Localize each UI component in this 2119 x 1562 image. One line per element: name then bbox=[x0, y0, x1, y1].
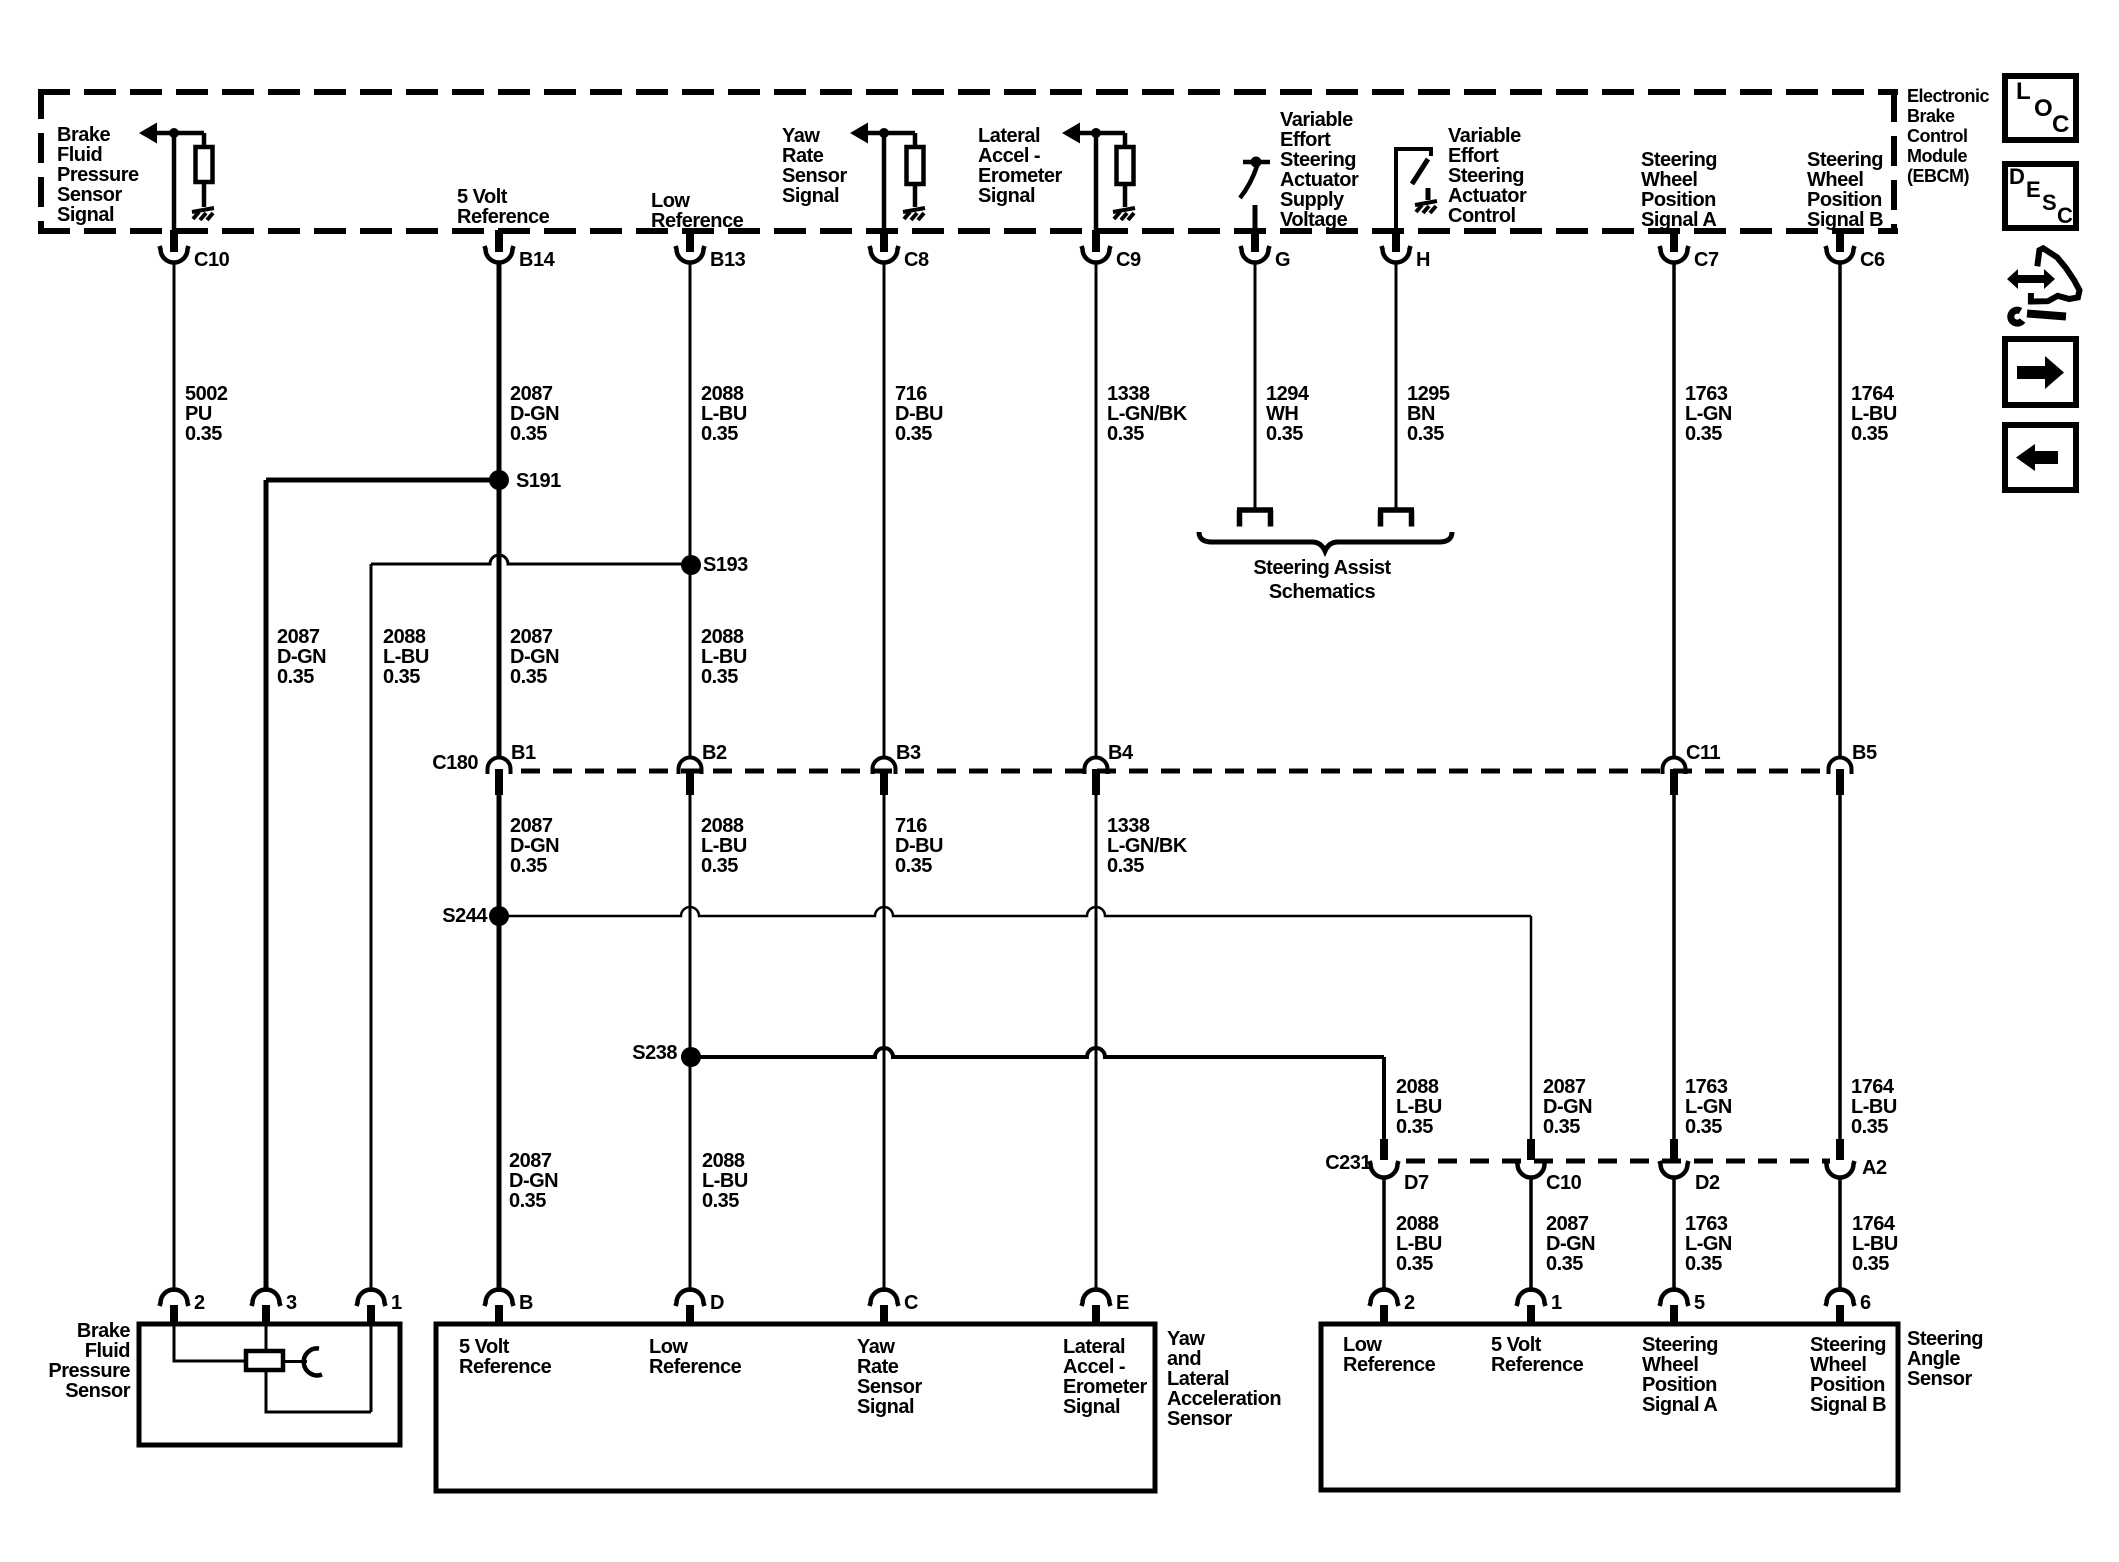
svg-text:1: 1 bbox=[1551, 1292, 1562, 1314]
wire resistor to ground (C10) bbox=[202, 182, 207, 207]
svg-text:B13: B13 bbox=[710, 249, 746, 271]
icon box DESC bbox=[2005, 164, 2076, 228]
wire resistor to ground (C8) bbox=[913, 184, 918, 207]
connector pin 2 (pressure sensor) bbox=[160, 1290, 206, 1325]
connector pin C (yaw sensor) bbox=[870, 1290, 919, 1325]
junction node (C10 circuit) bbox=[169, 128, 179, 138]
wire 1295 BN (H) bbox=[1395, 263, 1398, 508]
wire 1763 L-GN (C11 to C231 D2) bbox=[1672, 790, 1676, 1140]
wire node down to C10 pin bbox=[172, 133, 177, 231]
connector C180 dashed line bbox=[521, 769, 1830, 774]
wire bar at G node bbox=[1243, 160, 1270, 165]
svg-text:L: L bbox=[2016, 78, 2030, 105]
svg-text:VariableEffortSteeringActuator: VariableEffortSteeringActuatorSupplyVolt… bbox=[1280, 109, 1359, 231]
svg-text:C7: C7 bbox=[1694, 249, 1719, 271]
svg-text:B5: B5 bbox=[1852, 742, 1877, 764]
svg-text:2: 2 bbox=[1404, 1292, 1415, 1314]
svg-text:C6: C6 bbox=[1860, 249, 1885, 271]
wire 2087 branch down (to pin 3) bbox=[264, 480, 269, 1292]
signal arrow (Brake Fluid Pressure Sensor Signal) bbox=[139, 123, 157, 144]
connector pin 1 (steering angle sensor) bbox=[1517, 1290, 1563, 1325]
ground (C8 circuit) bbox=[903, 208, 925, 220]
wire node to resistor R(C10) bbox=[202, 133, 207, 147]
curly brace (Steering Assist) bbox=[1199, 532, 1452, 551]
svg-text:S244: S244 bbox=[442, 905, 488, 927]
connector pin B14 (EBCM) bbox=[485, 230, 556, 271]
icon wrench/double-arrow (diagnostic aids) bbox=[2007, 248, 2080, 323]
svg-text:B4: B4 bbox=[1108, 742, 1134, 764]
connector pin G (EBCM) bbox=[1241, 230, 1291, 271]
connector C231 pin D7 bbox=[1370, 1139, 1429, 1194]
wire node down to C8 pin bbox=[882, 133, 887, 231]
wire 2087 D-GN (S191 to C180 B1) bbox=[497, 480, 502, 759]
svg-text:E: E bbox=[1116, 1292, 1129, 1314]
svg-text:S191: S191 bbox=[516, 470, 561, 492]
connector pin C10 (EBCM) bbox=[160, 230, 230, 271]
wire 2088 (C231 D7 to sensor pin 2) bbox=[1382, 1176, 1386, 1292]
svg-text:S238: S238 bbox=[632, 1042, 677, 1064]
connector pin D (yaw sensor) bbox=[676, 1290, 725, 1325]
EBCM module dashed border right bbox=[1891, 92, 1897, 231]
wire 1338 L-GN/BK (B4 to sensor pin E) bbox=[1095, 790, 1098, 1292]
connector C180 pin B2 bbox=[679, 742, 727, 795]
wire node to resistor (C8) bbox=[913, 133, 918, 147]
component box: Yaw and Lateral Acceleration Sensor bbox=[436, 1324, 1155, 1491]
wire arrow to node bbox=[155, 131, 204, 136]
svg-text:D7: D7 bbox=[1404, 1172, 1429, 1194]
svg-text:D2: D2 bbox=[1695, 1172, 1720, 1194]
EBCM module dashed border left bbox=[38, 89, 44, 231]
wire 2088 (S238 to C231 D7) bbox=[691, 1048, 1384, 1057]
svg-text:C9: C9 bbox=[1116, 249, 1141, 271]
ground (C9 circuit) bbox=[1113, 208, 1135, 220]
junction node (C8 circuit) bbox=[879, 128, 889, 138]
svg-text:D: D bbox=[710, 1292, 724, 1314]
wire 716 D-BU (C8 to C180 B3) bbox=[883, 263, 886, 758]
wire H pin up and over bbox=[1396, 149, 1431, 231]
connector C231 pin C10 bbox=[1517, 1139, 1582, 1194]
svg-text:A2: A2 bbox=[1862, 1157, 1887, 1179]
signal arrow (Lateral Accelerometer Signal) bbox=[1062, 123, 1080, 144]
junction node (C9 circuit) bbox=[1091, 128, 1101, 138]
wire 2088 L-BU (B13 to C180 B2) bbox=[689, 263, 692, 758]
connector pin 1 (pressure sensor) bbox=[357, 1290, 403, 1325]
wire element to wiper symbol bbox=[284, 1360, 307, 1363]
wire 2088 branch down (to pin 1) bbox=[370, 564, 373, 1292]
svg-text:3: 3 bbox=[286, 1292, 297, 1314]
svg-text:SteeringWheelPositionSignal B: SteeringWheelPositionSignal B bbox=[1810, 1334, 1886, 1416]
svg-text:C: C bbox=[904, 1292, 918, 1314]
connector pin C6 (EBCM) bbox=[1826, 230, 1885, 271]
wire 1763 L-GN (C7 to C180 C11) bbox=[1672, 263, 1676, 758]
connector pin 6 (steering angle sensor) bbox=[1826, 1290, 1872, 1325]
icon box LOC bbox=[2005, 76, 2076, 140]
EBCM module dashed border top bbox=[38, 89, 1898, 95]
wiper crescent symbol bbox=[304, 1348, 322, 1375]
svg-text:O: O bbox=[2034, 95, 2052, 122]
svg-text:G: G bbox=[1275, 249, 1290, 271]
svg-text:VariableEffortSteeringActuator: VariableEffortSteeringActuatorControl bbox=[1448, 125, 1527, 227]
svg-text:5: 5 bbox=[1694, 1292, 1705, 1314]
connector pin B (yaw sensor) bbox=[485, 1290, 534, 1325]
connector pin B13 (EBCM) bbox=[676, 230, 746, 271]
terminator bracket (G wire) bbox=[1237, 510, 1273, 527]
svg-text:B2: B2 bbox=[702, 742, 727, 764]
ground (C10 circuit) bbox=[192, 208, 214, 220]
connector C231 dashed line bbox=[1406, 1159, 1830, 1164]
wire 1764 L-BU (A2 to sensor pin 6) bbox=[1838, 1176, 1842, 1292]
wire resistor to ground (C9) bbox=[1123, 184, 1128, 207]
svg-text:E: E bbox=[2026, 177, 2040, 202]
wire 1764 L-BU (B5 to C231 A2) bbox=[1838, 790, 1842, 1140]
wire 2087 D-GN (B14 to S191) bbox=[497, 263, 502, 480]
resistor (C8 pull-up) bbox=[907, 147, 924, 184]
splice S191 bbox=[489, 470, 561, 492]
wire 2087 D-GN (B1 to S244) bbox=[497, 790, 502, 916]
svg-text:SteeringWheelPositionSignal B: SteeringWheelPositionSignal B bbox=[1807, 149, 1883, 231]
wire 2087 (S244 to C231 C10) bbox=[499, 907, 1531, 916]
svg-text:B1: B1 bbox=[511, 742, 536, 764]
wire 1764 L-BU (C6 to C180 B5) bbox=[1838, 263, 1842, 758]
svg-text:C180: C180 bbox=[432, 752, 478, 774]
connector C231 pin D2 bbox=[1660, 1139, 1720, 1194]
wire inside sensor (pin 3 leg) bbox=[265, 1324, 268, 1350]
svg-text:SteeringWheelPositionSignal A: SteeringWheelPositionSignal A bbox=[1642, 1334, 1718, 1416]
svg-text:B3: B3 bbox=[896, 742, 921, 764]
svg-text:SteeringWheelPositionSignal A: SteeringWheelPositionSignal A bbox=[1641, 149, 1717, 231]
wire 2087 branch (S191 to pin 3) bbox=[266, 478, 499, 483]
wire 2087 D-GN (S244 to sensor pin B) bbox=[497, 916, 502, 1292]
connector pin 2 (steering angle sensor) bbox=[1370, 1290, 1416, 1325]
svg-text:C11: C11 bbox=[1686, 742, 1720, 764]
wire G node to pin bbox=[1253, 205, 1258, 231]
connector pin E (yaw sensor) bbox=[1082, 1290, 1130, 1325]
wire inside sensor (pin 2 leg) bbox=[174, 1324, 246, 1361]
connector pin 5 (steering angle sensor) bbox=[1660, 1290, 1706, 1325]
svg-text:C10: C10 bbox=[1546, 1172, 1582, 1194]
svg-text:D: D bbox=[2009, 164, 2024, 189]
connector pin H (EBCM) bbox=[1382, 230, 1431, 271]
resistor (C10 pull-up) bbox=[196, 147, 213, 182]
connector pin 3 (pressure sensor) bbox=[252, 1290, 298, 1325]
connector pin C9 (EBCM) bbox=[1082, 230, 1141, 271]
ground (H driver) bbox=[1415, 201, 1437, 213]
wire arrow to node (C8) bbox=[866, 131, 915, 136]
svg-text:B: B bbox=[519, 1292, 533, 1314]
icon box arrow left bbox=[2005, 425, 2076, 490]
connector C180 pin B4 bbox=[1085, 742, 1134, 795]
wire 2087 down (to C231 C10) bbox=[1530, 916, 1533, 1140]
EBCM module dashed border bottom bbox=[38, 228, 1898, 234]
wire 2088 L-BU (B2 to S238) bbox=[689, 790, 692, 1292]
svg-text:2: 2 bbox=[194, 1292, 205, 1314]
wire 2088 down (to C231 D7) bbox=[1382, 1057, 1386, 1140]
svg-text:C: C bbox=[2057, 203, 2073, 228]
svg-text:C231: C231 bbox=[1325, 1152, 1371, 1174]
wire 5002 PU (C10 to sensor pin 2) bbox=[173, 262, 176, 1292]
svg-text:C: C bbox=[2052, 111, 2069, 138]
connector C180 pin B5 bbox=[1829, 742, 1877, 795]
switch blade (G) bbox=[1240, 166, 1257, 198]
svg-text:S193: S193 bbox=[703, 554, 748, 576]
svg-text:H: H bbox=[1416, 249, 1430, 271]
switch blade (H) bbox=[1412, 159, 1428, 184]
svg-text:C8: C8 bbox=[904, 249, 929, 271]
connector C231 pin A2 bbox=[1826, 1139, 1887, 1179]
splice S244 bbox=[442, 905, 509, 927]
connector pin C8 (EBCM) bbox=[870, 230, 929, 271]
wire 2087 (C231 C10 to sensor pin 1) bbox=[1529, 1176, 1533, 1292]
svg-text:1: 1 bbox=[391, 1292, 402, 1314]
component box: Brake Fluid Pressure Sensor bbox=[139, 1324, 400, 1445]
wire inside sensor (below element) bbox=[266, 1324, 371, 1412]
splice S238 bbox=[632, 1042, 701, 1067]
wire 1338 L-GN/BK (C9 to C180 B4) bbox=[1095, 263, 1098, 758]
svg-text:B14: B14 bbox=[519, 249, 556, 271]
splice S193 bbox=[681, 554, 748, 576]
wire 716 D-BU (B3 to sensor pin C) bbox=[883, 790, 886, 1292]
connector C180 pin B3 bbox=[873, 742, 921, 795]
terminator bracket (H wire) bbox=[1378, 510, 1414, 527]
resistor (C9 pull-up) bbox=[1117, 147, 1134, 184]
connector C180 pin B1 bbox=[488, 742, 536, 795]
wire 1763 L-GN (D2 to sensor pin 5) bbox=[1672, 1176, 1676, 1292]
wire node down to C9 pin bbox=[1094, 133, 1099, 231]
wire node to resistor (C9) bbox=[1123, 133, 1128, 147]
switch node (G supply) bbox=[1251, 157, 1262, 168]
signal arrow (Yaw Rate Sensor Signal) bbox=[850, 123, 868, 144]
wire arrow to node (C9) bbox=[1078, 131, 1125, 136]
connector pin C7 (EBCM) bbox=[1660, 230, 1719, 271]
svg-text:C10: C10 bbox=[194, 249, 230, 271]
component box: Steering Angle Sensor bbox=[1321, 1324, 1898, 1490]
svg-text:6: 6 bbox=[1860, 1292, 1871, 1314]
wire 1294 WH (G) bbox=[1254, 263, 1257, 508]
sensor element (pressure transducer) bbox=[246, 1351, 283, 1370]
wire 2088 branch (S193 to pin 1) bbox=[371, 555, 690, 564]
icon box arrow right bbox=[2005, 339, 2076, 405]
connector C180 pin C11 bbox=[1663, 742, 1721, 795]
wire blade to ground (H) bbox=[1426, 188, 1431, 200]
svg-text:S: S bbox=[2042, 190, 2056, 215]
